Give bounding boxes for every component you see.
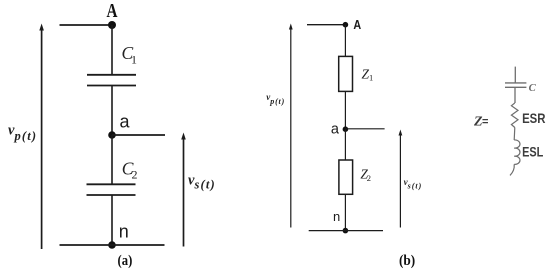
arrow vs(t) (b) (399, 130, 403, 228)
svg-text:=: = (482, 116, 488, 128)
impedance Z1 box (339, 56, 353, 91)
svg-text:(a): (a) (118, 253, 133, 269)
svg-text:a: a (120, 112, 131, 132)
capacitor C1 (87, 75, 136, 86)
wire C2 to n (111, 195, 113, 245)
wire a right (b) (345, 128, 384, 130)
svg-text:vs(t): vs(t) (404, 177, 423, 191)
wire C to ESR (514, 87, 516, 103)
svg-text:vp(t): vp(t) (8, 123, 37, 143)
node n (a) (108, 241, 116, 249)
svg-text:a: a (331, 121, 340, 137)
svg-text:(b): (b) (399, 253, 415, 269)
node A (b) (343, 22, 349, 28)
svg-text:1: 1 (131, 53, 137, 67)
svg-text:A: A (107, 1, 118, 22)
wire Z1 to a (344, 91, 346, 129)
wire A to C1 (111, 25, 113, 75)
wire top (a) (60, 24, 113, 26)
resistor ESR (511, 103, 518, 128)
svg-text:A: A (353, 18, 361, 32)
arrow vp(t) (b) (289, 24, 293, 228)
wire Z2 to n (344, 194, 346, 230)
node A (a) (108, 21, 116, 29)
wire A to Z1 (344, 25, 346, 57)
svg-text:2: 2 (132, 168, 138, 182)
impedance Z2 box (339, 160, 353, 194)
inductor ESL (514, 140, 520, 164)
svg-text:n: n (119, 222, 129, 242)
svg-text:ESL: ESL (522, 144, 544, 160)
wire top lead Z (514, 67, 516, 83)
svg-text:ESR: ESR (522, 110, 545, 126)
wire a right (a) (112, 134, 165, 136)
wire bottom (b) (309, 230, 383, 232)
svg-text:1: 1 (369, 73, 373, 83)
svg-text:2: 2 (367, 173, 371, 183)
wire C1 to a (111, 86, 113, 136)
arrow vs(t) (a) (181, 133, 186, 247)
wire top (b) (307, 24, 345, 26)
wire a to C2 (111, 135, 113, 184)
svg-text:vp(t): vp(t) (266, 92, 285, 106)
capacitor C2 (87, 184, 136, 195)
wire bottom lead Z (510, 164, 514, 175)
svg-text:n: n (333, 209, 340, 224)
node n (b) (343, 228, 349, 234)
capacitor C (model) (505, 83, 526, 87)
arrow vp(t) (a) (39, 24, 44, 250)
svg-text:C: C (529, 82, 537, 94)
svg-text:vs(t): vs(t) (188, 173, 216, 192)
node a (a) (108, 131, 116, 139)
wire ESR to ESL (513, 128, 516, 141)
wire bottom (a) (60, 244, 165, 246)
wire a to Z2 (344, 129, 346, 160)
node a (b) (343, 126, 349, 132)
